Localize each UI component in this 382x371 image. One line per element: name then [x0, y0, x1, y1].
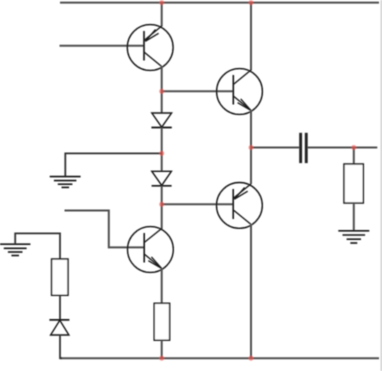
wire ground G2 up and over to resistor R2	[15, 233, 60, 259]
ground G3	[338, 231, 369, 243]
wire node C to Q4 base	[162, 203, 234, 205]
wire Q3 base input: stub, vertical, into base	[65, 211, 145, 248]
wire R2 to diode D3	[59, 295, 61, 319]
wire Q1 base lead from left input stub	[60, 45, 145, 47]
diode D2	[152, 171, 172, 186]
wire left vertical: D2 to Q3 collector	[161, 186, 163, 229]
node A (Q2 base tap)	[159, 89, 164, 94]
resistor R3	[344, 164, 363, 203]
resistor R1	[154, 303, 169, 340]
wire R1 to bottom rail	[161, 340, 163, 358]
diode D3 (pointing up)	[49, 320, 69, 335]
transistor Q2 (NPN, top-right)	[217, 69, 263, 115]
wire R3 to ground G3	[353, 203, 355, 231]
wire left vertical: Q1 collector down to diode D1	[161, 66, 163, 113]
transistor Q1 (PNP, top-left)	[127, 25, 173, 71]
node B (ground tap)	[159, 151, 164, 156]
wire right vertical: Q2 emitter to Q4 emitter (output node)	[250, 110, 252, 184]
wire left vertical: D1 to D2	[161, 128, 163, 172]
node output (capacitor tap)	[249, 145, 254, 150]
wire bottom supply rail	[60, 357, 379, 359]
node bottom-left junction	[159, 356, 164, 361]
wire D3 to bottom rail	[60, 335, 62, 358]
wire node A to Q2 base	[162, 90, 234, 92]
node top-left junction	[159, 0, 164, 5]
node bottom-right junction	[249, 356, 254, 361]
wire ground G1 net from node B	[65, 153, 161, 176]
capacitor C1	[299, 133, 307, 163]
wire node D down to resistor R3	[353, 148, 355, 165]
node top-right junction	[249, 0, 254, 5]
wire output node to capacitor C1	[251, 147, 299, 149]
diode D1	[151, 113, 171, 128]
transistor Q3 (NPN, bottom-left)	[127, 227, 173, 273]
resistor R2	[52, 259, 68, 295]
wire right vertical: Q4 collector to bottom rail	[250, 224, 252, 358]
node D (R3 tap)	[351, 145, 356, 150]
wire right vertical: rail to Q2 collector	[250, 3, 252, 71]
transistor Q4 (PNP, bottom-right)	[217, 183, 263, 229]
node C (Q4 base tap)	[159, 202, 164, 207]
wire top supply rail	[60, 2, 379, 4]
ground G2	[0, 244, 30, 255]
ground G1	[50, 177, 81, 188]
wire left vertical: rail to Q1 emitter	[161, 3, 163, 27]
wire Q3 emitter to resistor R1	[161, 268, 163, 303]
wire capacitor to right output stub	[308, 147, 378, 149]
